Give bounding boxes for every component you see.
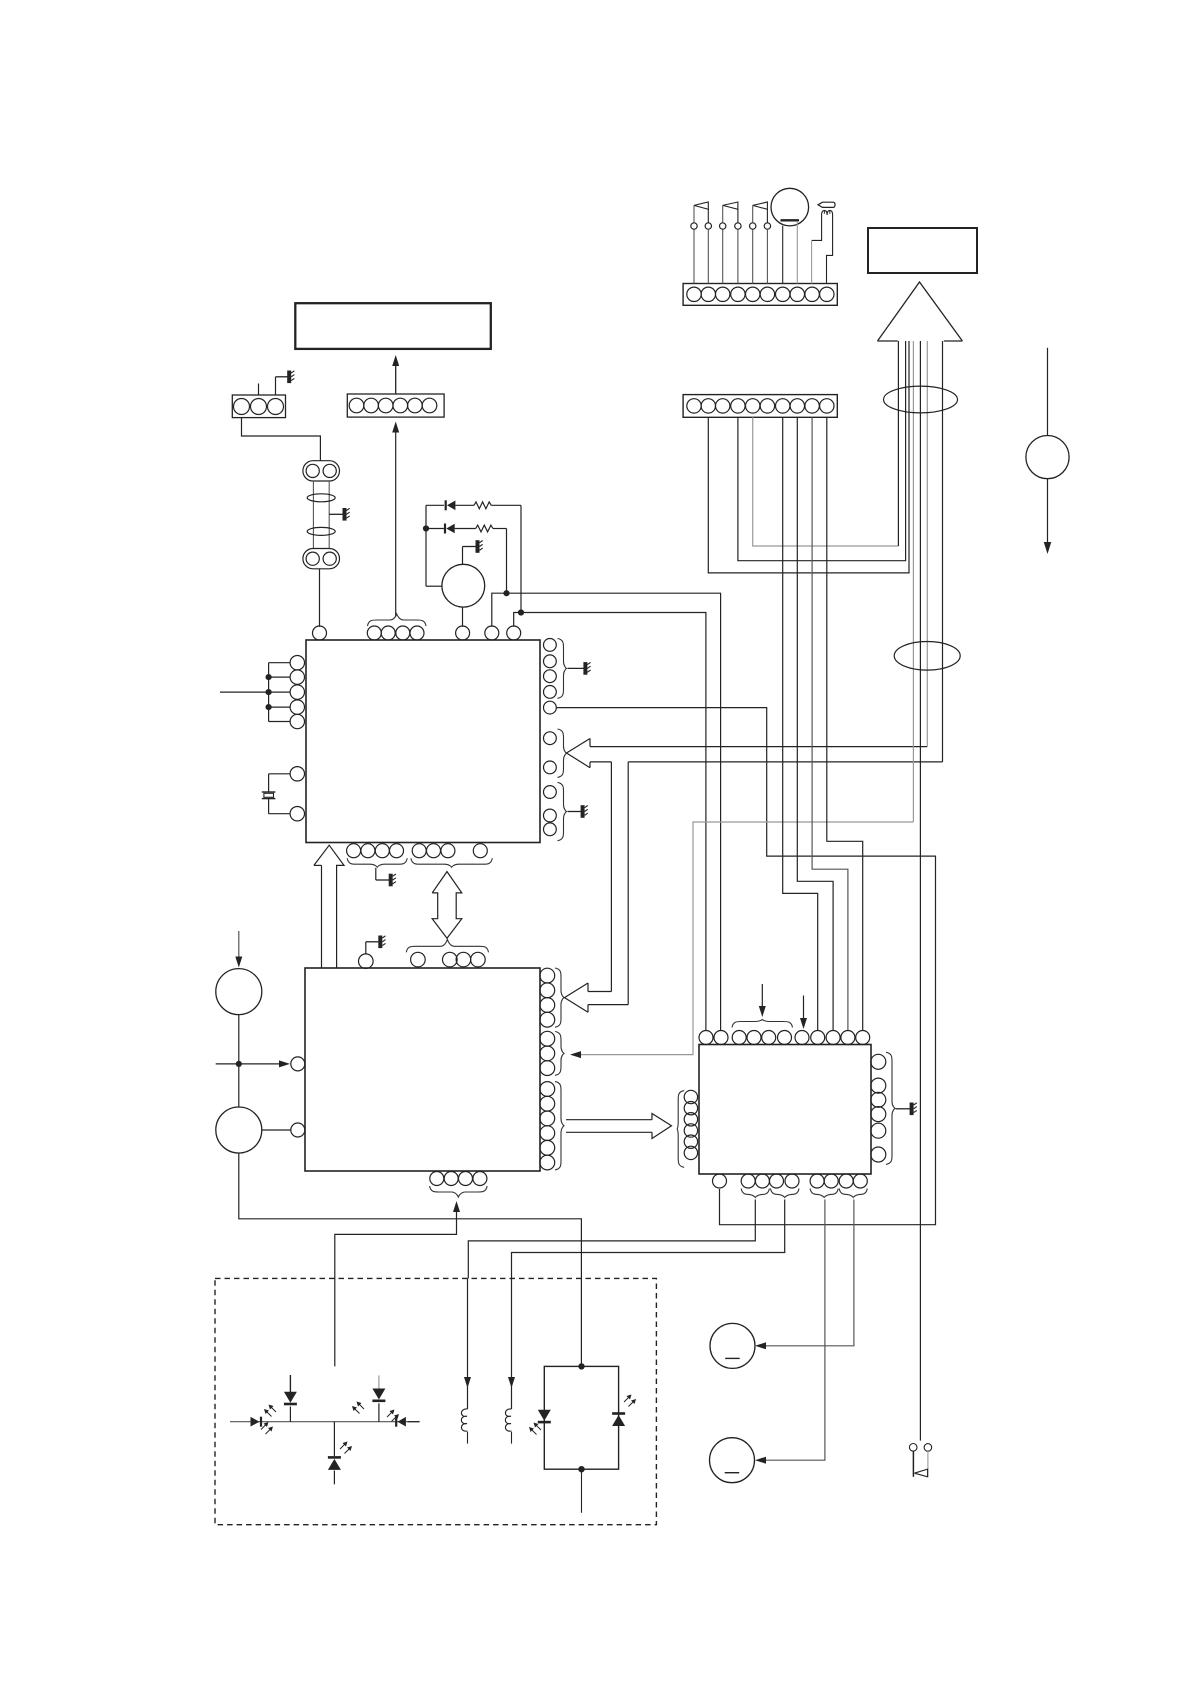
cable bundle arrow	[878, 282, 963, 341]
bundle line to power switch	[919, 341, 921, 1441]
wire IC3 to motor M2	[755, 1200, 825, 1464]
earphone plug	[818, 202, 835, 215]
ferrite ellipse 2	[894, 642, 960, 671]
LED D14	[387, 1410, 420, 1427]
bundle line (arrow bottom)	[942, 341, 944, 762]
brace bottom 2	[411, 858, 492, 867]
wire CN2 to IC1 brace	[392, 422, 399, 617]
wire CN1 to transformer T1	[242, 418, 321, 461]
wire S2 to IC2	[262, 1129, 291, 1131]
IC3 right brace	[886, 1052, 895, 1164]
IC1 right pin group A	[544, 639, 557, 699]
arrow into S1	[235, 931, 242, 968]
wire bus A to IC3 pin2	[492, 590, 721, 1030]
arrow tap to IC2	[216, 1060, 290, 1067]
wire stub middle pin	[258, 384, 260, 396]
plug wire left	[812, 215, 822, 284]
ground tap T1	[329, 508, 350, 521]
arrow from key unit into IC2	[335, 1201, 460, 1366]
motor M1	[710, 1323, 755, 1368]
IC2 top pins	[411, 952, 486, 967]
arrow into IC3 pin7	[800, 996, 807, 1030]
IC1 right pin group B	[544, 732, 557, 774]
IC1 left pins	[290, 656, 304, 729]
plug wire right	[827, 215, 833, 284]
crystal X1	[262, 774, 290, 814]
connector CN4 (10-pin)	[683, 395, 837, 418]
ground C	[568, 805, 588, 818]
brace R1	[555, 968, 564, 1027]
gray wire from bundle into IC2	[570, 822, 913, 1058]
ground bottom	[376, 868, 396, 886]
LED D11	[251, 1417, 274, 1434]
wire X2 to IC1	[462, 607, 464, 627]
photo-diode block	[544, 1363, 618, 1472]
wire IC1 to IC3 bottom (long loop)	[556, 708, 935, 1225]
wire IC3 to L2	[512, 1200, 785, 1279]
key switch SW1	[691, 202, 712, 284]
ground at X2	[463, 540, 483, 564]
key switch SW2	[720, 202, 742, 284]
wire IC3 to motor M1	[755, 1200, 854, 1350]
key & display unit (dashed)	[215, 1278, 656, 1524]
key switch SW3	[750, 202, 771, 284]
IC1 top brace	[368, 614, 427, 626]
brace R2	[555, 1032, 564, 1076]
photo diode PD1	[612, 1395, 636, 1427]
IC3 bottom pins	[713, 1174, 868, 1188]
inductor L2	[505, 1278, 515, 1443]
ground A	[568, 662, 591, 675]
IC2 bottom pins	[430, 1172, 487, 1186]
hollow arrow IC2 to IC3	[566, 1114, 672, 1139]
wire T1 to IC1 pin	[319, 569, 321, 627]
wire R1 down	[520, 505, 522, 612]
oscillator X2 circle	[426, 564, 485, 607]
input circle S2	[216, 1107, 262, 1153]
wire CN4 pin7 to IC3	[783, 417, 818, 1030]
wire R2 down	[506, 529, 508, 594]
bus arrow IC1-IC2 (double hollow)	[432, 872, 462, 939]
wire CN4 pin10 to IC3	[827, 417, 863, 1030]
hollow arrow into IC1 bottom	[314, 845, 344, 968]
brace B	[558, 729, 567, 777]
IC2 bottom brace	[430, 1186, 488, 1197]
motor M2	[710, 1438, 755, 1483]
arrow to label box	[392, 355, 399, 394]
battery/speaker symbol	[771, 188, 809, 283]
brace A	[558, 639, 567, 699]
power switch SW4	[909, 1444, 931, 1477]
IC3 top brace	[732, 1020, 793, 1028]
IC2 right pin group 2	[540, 1031, 555, 1075]
diode D2	[426, 524, 476, 534]
brace R3	[555, 1082, 564, 1170]
ground at CN1	[276, 371, 295, 396]
LED D13	[352, 1375, 385, 1421]
ground IC3	[896, 1103, 917, 1116]
IC2 left pins	[291, 1057, 305, 1137]
IC1 right single pin	[544, 701, 557, 714]
IC1 bottom pin group 1	[347, 844, 404, 858]
IC1 system control	[306, 640, 540, 843]
IC3 bottom braces	[741, 1189, 867, 1198]
wire CN4 pin4 to bundle	[738, 341, 906, 561]
wire CN4 pin8 to IC3	[797, 417, 833, 1030]
connector CN1 (3-pin)	[232, 395, 285, 418]
wire net left vertical	[423, 505, 429, 586]
IC2 top pin single w/ ground	[359, 936, 386, 969]
antenna drop symbol	[1026, 348, 1069, 554]
wire IC3 to L1	[468, 1200, 755, 1279]
diode D1	[426, 500, 474, 510]
ferrite ellipse 1	[884, 386, 958, 413]
resistor R1	[474, 502, 521, 509]
IC3 left pins	[684, 1090, 697, 1159]
IC2 right pin group 1	[540, 968, 555, 1027]
bundle line gray 1	[912, 341, 914, 822]
label box (top right)	[868, 228, 977, 273]
wire left input	[220, 691, 269, 693]
inductor L1	[461, 1278, 471, 1443]
IC2 servo/driver	[305, 968, 540, 1171]
transformer T1	[303, 461, 340, 569]
IC1 left lower pins	[290, 767, 304, 821]
wire S1-S2 with tap	[236, 1015, 242, 1107]
IC1 right pin group C	[544, 786, 557, 836]
IC3 right pins	[871, 1054, 886, 1162]
brace bottom 1	[347, 858, 407, 867]
wire CN4 pin9 to IC3	[812, 417, 848, 1030]
IC3 motor driver	[699, 1045, 871, 1175]
input circle S1	[216, 969, 262, 1015]
wire bus B to IC3 pin1	[514, 609, 706, 1030]
label box (display unit)	[295, 303, 491, 349]
hollow arrow into IC2 (from IC1)	[565, 762, 629, 1012]
wire CN4 pin2 to bundle	[708, 341, 909, 573]
connector CN3 (10-pin)	[683, 284, 837, 306]
stub below block	[581, 1469, 583, 1513]
LED bus	[230, 1421, 420, 1423]
wire CN4 pin5 to bundle	[753, 341, 899, 546]
LED D15	[328, 1422, 352, 1485]
IC1 bottom pin group 2	[412, 844, 487, 858]
bundle line gray 2 (arrow top)	[926, 341, 928, 747]
IC1 top pins	[313, 626, 521, 640]
wire S2 to diode block	[239, 1153, 582, 1364]
IC2 top brace	[406, 939, 488, 952]
LED D16	[529, 1410, 551, 1435]
IC3 left brace	[677, 1091, 684, 1168]
LED D12	[264, 1375, 297, 1422]
connector CN2 (6-pin)	[347, 394, 444, 417]
IC1 left bus	[266, 663, 291, 722]
IC2 right pin group 3	[540, 1082, 555, 1170]
bus arrow into IC1 (hollow)	[567, 739, 943, 768]
brace C	[558, 782, 567, 840]
IC3 top pins	[699, 1031, 870, 1045]
arrow into IC3 brace	[759, 984, 766, 1017]
resistor R2	[476, 525, 507, 532]
